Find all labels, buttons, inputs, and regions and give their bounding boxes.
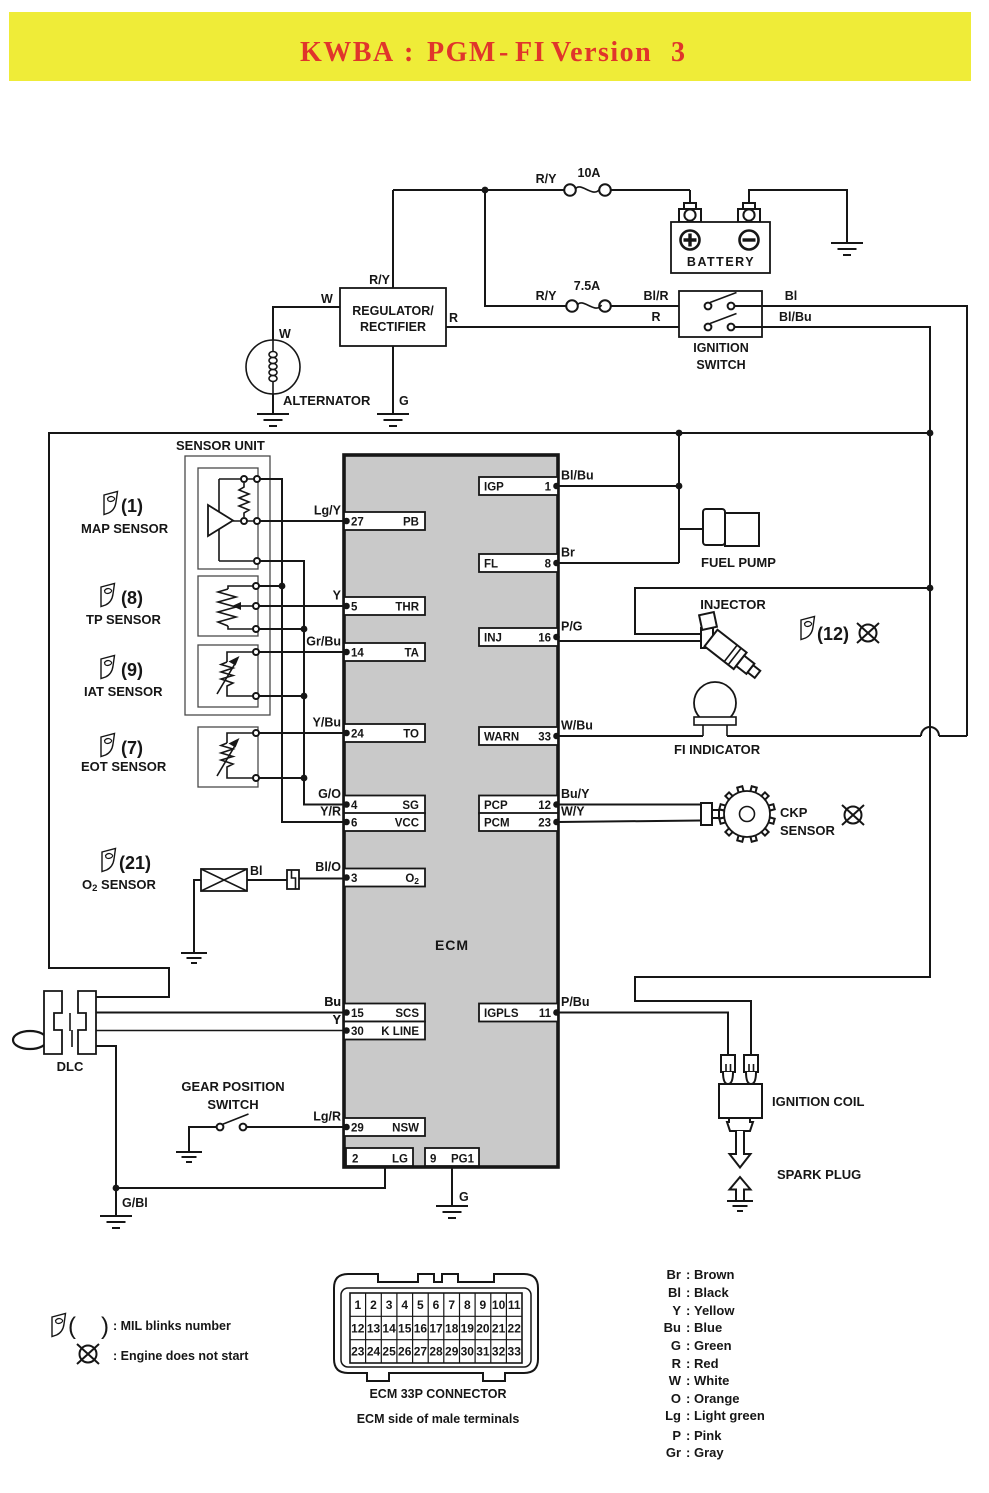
MAP sensor box	[198, 468, 258, 569]
svg-text:ECM: ECM	[435, 937, 469, 953]
wire O2 to ground	[194, 880, 201, 953]
svg-text:12: 12	[538, 800, 551, 812]
svg-text:G: G	[671, 1338, 681, 1353]
node pin 24 dot	[343, 730, 350, 737]
svg-text:IGP: IGP	[484, 482, 504, 494]
MIL icon (1)	[104, 492, 118, 515]
svg-text::: :	[686, 1391, 690, 1406]
svg-text:17: 17	[429, 1321, 443, 1335]
svg-text:15: 15	[398, 1321, 412, 1335]
wire Lg/R gear switch to pin 29	[247, 1126, 345, 1128]
svg-text:LG: LG	[392, 1154, 408, 1166]
pin 9 PG1 (bottom)	[425, 1148, 479, 1166]
node pin 3 dot	[343, 874, 350, 881]
svg-text:FI INDICATOR: FI INDICATOR	[674, 742, 761, 757]
svg-text:G: G	[399, 394, 409, 408]
svg-text:R/Y: R/Y	[536, 289, 558, 303]
svg-text:Black: Black	[694, 1285, 729, 1300]
node pin 1 dot	[553, 483, 560, 490]
MIL icon (7)	[101, 734, 115, 757]
svg-text:23: 23	[538, 818, 551, 830]
pin 23 PCM (right)	[479, 813, 558, 831]
svg-text::: :	[686, 1408, 690, 1423]
node pin 8 dot	[553, 560, 560, 567]
svg-text:28: 28	[429, 1345, 443, 1359]
svg-text:21: 21	[492, 1321, 506, 1335]
pin 33 WARN (right)	[479, 727, 558, 745]
svg-text:DLC: DLC	[57, 1059, 84, 1074]
svg-text:Lg: Lg	[665, 1408, 681, 1423]
svg-text:30: 30	[351, 1026, 364, 1038]
svg-text:R/Y: R/Y	[369, 273, 391, 287]
svg-text:1: 1	[354, 1298, 361, 1312]
svg-text:R: R	[672, 1356, 682, 1371]
svg-text:2: 2	[352, 1154, 358, 1166]
pin 14 TA (left)	[344, 643, 425, 661]
svg-text:W/Bu: W/Bu	[561, 719, 593, 733]
svg-text:24: 24	[367, 1345, 381, 1359]
wire bus A VCC	[260, 479, 344, 822]
svg-text:23: 23	[351, 1345, 365, 1359]
svg-text:W: W	[321, 292, 333, 306]
svg-text:Gray: Gray	[694, 1445, 724, 1460]
svg-text:PG1: PG1	[451, 1154, 475, 1166]
svg-text:R: R	[651, 310, 660, 324]
wire color legend	[664, 1267, 765, 1460]
svg-text:TP SENSOR: TP SENSOR	[86, 612, 162, 627]
svg-text:8: 8	[464, 1298, 471, 1312]
wire alternator to ground	[272, 394, 274, 414]
wire Bu/Y PCP pin to CKP	[558, 804, 701, 806]
svg-text:10A: 10A	[578, 166, 601, 180]
svg-text:G/Bl: G/Bl	[122, 1196, 148, 1210]
ground spark plug	[727, 1201, 753, 1211]
MAP sensor internals	[208, 476, 260, 564]
title banner	[9, 12, 971, 81]
svg-text:13: 13	[367, 1321, 381, 1335]
wire R regulator to switch	[446, 326, 679, 328]
svg-text:5: 5	[351, 602, 358, 614]
pin 12 PCP (right)	[479, 796, 558, 814]
wire DLC ground branch	[96, 1046, 116, 1216]
svg-text:14: 14	[382, 1321, 396, 1335]
svg-text::: :	[686, 1428, 690, 1443]
svg-text:R: R	[449, 311, 458, 325]
svg-text:16: 16	[538, 633, 551, 645]
node pin 16 dot	[553, 634, 560, 641]
svg-text:SENSOR UNIT: SENSOR UNIT	[176, 438, 265, 453]
wire fuel pump / IGP branch vertical	[679, 433, 703, 563]
svg-text:1: 1	[545, 482, 552, 494]
pin 5 THR (left)	[344, 597, 425, 615]
wire regulator G to ground	[392, 346, 394, 414]
wire Lg/Y MAP to pin 27	[260, 520, 344, 522]
wire Br FL pin to branch	[558, 562, 679, 564]
svg-text:Brown: Brown	[694, 1267, 735, 1282]
svg-text:G/O: G/O	[318, 787, 341, 801]
pin 11 IGPLS (right)	[479, 1004, 558, 1022]
node pin 6 dot	[343, 819, 350, 826]
no-start icon legend	[77, 1344, 99, 1364]
svg-text:(8): (8)	[121, 588, 143, 608]
pin 2 LG (bottom)	[346, 1148, 413, 1166]
svg-text:29: 29	[351, 1123, 364, 1135]
wire battery positive top rail	[393, 190, 690, 288]
ground PG1	[436, 1206, 468, 1218]
svg-text:Orange: Orange	[694, 1391, 740, 1406]
svg-text:THR: THR	[395, 602, 419, 614]
svg-text:32: 32	[492, 1345, 506, 1359]
ground gear switch	[176, 1152, 202, 1162]
svg-text:W: W	[279, 327, 291, 341]
svg-text:FUEL PUMP: FUEL PUMP	[701, 555, 776, 570]
svg-text:TA: TA	[405, 648, 419, 660]
node pin 27 dot	[343, 518, 350, 525]
svg-text:SG: SG	[402, 800, 419, 812]
node pin 23 dot	[553, 819, 560, 826]
svg-text:Bl: Bl	[668, 1285, 681, 1300]
op-amp ECM main box U1	[344, 455, 558, 1167]
wire Bl O2 to connector	[247, 879, 287, 881]
MIL icon (9)	[101, 656, 115, 679]
svg-text:Gr: Gr	[666, 1445, 681, 1460]
svg-text:11: 11	[508, 1298, 521, 1312]
svg-text::: :	[686, 1320, 690, 1335]
FI indicator L1	[674, 682, 761, 757]
fuse F2 7.5A	[566, 300, 578, 312]
pin 15 SCS (left)	[344, 1004, 425, 1022]
svg-text:Blue: Blue	[694, 1320, 722, 1335]
svg-text:IGNITION: IGNITION	[693, 341, 749, 355]
wire FI indicator to Bl rail with hop	[727, 727, 967, 736]
svg-text:W/Y: W/Y	[561, 805, 585, 819]
svg-text:(: (	[68, 1313, 76, 1340]
node pin 12 dot	[553, 801, 560, 808]
svg-text:K LINE: K LINE	[381, 1026, 419, 1038]
MIL icon legend	[52, 1314, 66, 1337]
CKP sensor B1	[701, 786, 836, 841]
svg-text:7: 7	[448, 1298, 455, 1312]
svg-text:IGNITION COIL: IGNITION COIL	[772, 1094, 865, 1109]
ground alternator	[257, 414, 289, 426]
svg-text:Y: Y	[333, 1013, 342, 1027]
svg-text:RECTIFIER: RECTIFIER	[360, 320, 426, 334]
svg-text::: :	[686, 1338, 690, 1353]
pin 24 TO (left)	[344, 724, 425, 742]
svg-text:Bl/O: Bl/O	[315, 860, 341, 874]
svg-text:Y/Bu: Y/Bu	[313, 716, 341, 730]
ignition switch SW1	[679, 291, 762, 372]
ground battery	[831, 243, 863, 255]
wire Gr/Bu IAT to pin 14	[259, 651, 344, 653]
wire fuse2 to ignition switch	[611, 305, 679, 307]
svg-text:White: White	[694, 1373, 729, 1388]
svg-text:GEAR POSITION: GEAR POSITION	[181, 1079, 284, 1094]
node junction bus A	[279, 583, 286, 590]
svg-text::: :	[686, 1267, 690, 1282]
svg-text:FL: FL	[484, 559, 498, 571]
pin 1 IGP (right)	[479, 477, 558, 495]
svg-text:ECM 33P CONNECTOR: ECM 33P CONNECTOR	[369, 1387, 506, 1401]
ground G/Bl	[100, 1216, 132, 1228]
node junction bus B	[301, 775, 308, 782]
svg-text:30: 30	[461, 1345, 475, 1359]
svg-text:4: 4	[401, 1298, 408, 1312]
svg-text:PCM: PCM	[484, 818, 510, 830]
svg-text:18: 18	[445, 1321, 459, 1335]
no-start icon CKP	[842, 805, 864, 825]
wire TP bottom to bus B	[259, 628, 304, 630]
svg-text:15: 15	[351, 1008, 364, 1020]
svg-text:Lg/Y: Lg/Y	[314, 504, 342, 518]
svg-text:(21): (21)	[119, 853, 151, 873]
svg-text:G: G	[459, 1190, 469, 1204]
svg-text:16: 16	[414, 1321, 428, 1335]
MIL icon (8)	[101, 584, 115, 607]
node pin 14 dot	[343, 649, 350, 656]
wire Y/Bu EOT to pin 24	[259, 732, 344, 734]
svg-text:Bu: Bu	[664, 1320, 681, 1335]
svg-text:: MIL blinks number: : MIL blinks number	[113, 1319, 231, 1333]
wire P/G INJ pin to injector	[558, 640, 701, 642]
svg-text:22: 22	[508, 1321, 522, 1335]
connector pin grid	[350, 1293, 522, 1363]
svg-text:(12): (12)	[817, 624, 849, 644]
pin 30 K LINE (left)	[344, 1022, 425, 1040]
svg-text:(1): (1)	[121, 496, 143, 516]
wire Bu DLC to pin 15	[96, 1012, 344, 1014]
node junction bus B	[301, 626, 308, 633]
fuel pump M1	[701, 509, 776, 570]
svg-text:Br: Br	[667, 1267, 681, 1282]
svg-text:Red: Red	[694, 1356, 719, 1371]
svg-text:INJ: INJ	[484, 633, 502, 645]
svg-text:9: 9	[480, 1298, 487, 1312]
svg-text:Bl: Bl	[785, 289, 798, 303]
svg-text:IGPLS: IGPLS	[484, 1008, 519, 1020]
ECM 33P connector J1 outline	[334, 1274, 538, 1381]
wire IAT bottom to bus B	[259, 695, 304, 697]
svg-text:2: 2	[370, 1298, 377, 1312]
svg-text:27: 27	[414, 1345, 428, 1359]
svg-text:26: 26	[398, 1345, 412, 1359]
node pin 33 dot	[553, 733, 560, 740]
svg-text:(7): (7)	[121, 738, 143, 758]
svg-text:Br: Br	[561, 546, 575, 560]
EOT sensor internals	[217, 730, 259, 781]
svg-text:O: O	[671, 1391, 681, 1406]
ground regulator	[377, 414, 409, 426]
svg-text:Bl/Bu: Bl/Bu	[779, 310, 812, 324]
wire W regulator to alternator	[273, 307, 340, 340]
svg-text:CKP: CKP	[780, 805, 808, 820]
svg-text:SWITCH: SWITCH	[696, 358, 745, 372]
svg-text:9: 9	[430, 1154, 436, 1166]
svg-text:VCC: VCC	[395, 818, 419, 830]
fuse F1 10A	[564, 184, 576, 196]
node junction bus B	[301, 693, 308, 700]
wire Y TP wiper to pin 5	[259, 605, 344, 607]
svg-text:P/G: P/G	[561, 620, 583, 634]
svg-text:Green: Green	[694, 1338, 732, 1353]
wire Bl/O connector to pin 3	[299, 878, 344, 880]
svg-text:33: 33	[538, 732, 551, 744]
svg-text:8: 8	[545, 559, 552, 571]
svg-text:Y: Y	[333, 589, 342, 603]
svg-text:Y: Y	[672, 1303, 681, 1318]
wire battery terminals	[690, 190, 847, 243]
node pin 11 dot	[553, 1009, 560, 1016]
connector inline O2	[287, 870, 299, 889]
svg-text:SCS: SCS	[395, 1008, 419, 1020]
wire Bl from switch to right rail	[735, 306, 968, 736]
IAT sensor internals	[217, 649, 259, 699]
svg-text:27: 27	[351, 517, 364, 529]
svg-text:W: W	[669, 1373, 682, 1388]
svg-text:14: 14	[351, 648, 364, 660]
wire gear switch to ground	[189, 1127, 217, 1152]
svg-text::: :	[686, 1285, 690, 1300]
node pin 30 dot	[343, 1027, 350, 1034]
svg-text:29: 29	[445, 1345, 459, 1359]
svg-text:NSW: NSW	[392, 1123, 419, 1135]
node pin 29 dot	[343, 1124, 350, 1131]
sensor unit outer box	[185, 456, 270, 715]
node junction wrap/right bus	[927, 430, 934, 437]
wire Bl/Bu IGP pin to branch	[558, 485, 679, 487]
svg-text:20: 20	[476, 1321, 490, 1335]
svg-text:31: 31	[476, 1345, 490, 1359]
svg-text:TO: TO	[403, 729, 419, 741]
MIL icon (12)	[801, 617, 815, 640]
regulator rectifier U2	[340, 288, 446, 346]
wire W/Y PCM pin to CKP	[558, 821, 701, 823]
node junction G/Bl	[113, 1185, 120, 1192]
svg-text:EOT SENSOR: EOT SENSOR	[81, 759, 167, 774]
svg-text:19: 19	[461, 1321, 475, 1335]
TP sensor internals	[218, 583, 259, 632]
svg-text:6: 6	[351, 818, 357, 830]
svg-text:6: 6	[433, 1298, 440, 1312]
svg-text:PCP: PCP	[484, 800, 508, 812]
pin 27 PB (left)	[344, 512, 425, 530]
DLC connector	[13, 991, 96, 1074]
svg-text:ECM side of male terminals: ECM side of male terminals	[357, 1412, 520, 1426]
svg-text:WARN: WARN	[484, 732, 519, 744]
IAT sensor box	[198, 645, 258, 707]
wire 7.5A branch vertical	[485, 190, 566, 306]
node pin 5 dot	[343, 603, 350, 610]
spark plug arrows	[730, 1131, 751, 1168]
node junction IGP branch	[676, 483, 683, 490]
svg-text:3: 3	[386, 1298, 393, 1312]
svg-text:33: 33	[508, 1345, 522, 1359]
svg-text:REGULATOR/: REGULATOR/	[352, 304, 434, 318]
wire LG pin to G/Bl junction	[116, 1166, 385, 1188]
node junction 10A rail to 7.5A branch	[482, 187, 489, 194]
svg-text:Bu/Y: Bu/Y	[561, 787, 590, 801]
battery BATTERY	[671, 203, 770, 273]
pin 16 INJ (right)	[479, 628, 558, 646]
svg-text:Y/R: Y/R	[320, 805, 341, 819]
svg-text:(9): (9)	[121, 660, 143, 680]
svg-text:Bl/Bu: Bl/Bu	[561, 469, 594, 483]
alternator G1	[246, 340, 371, 408]
svg-text:: Engine does not start: : Engine does not start	[113, 1349, 249, 1363]
wire bus B SG	[260, 561, 344, 805]
gear position switch SW2	[217, 1114, 249, 1130]
svg-text:Bl: Bl	[250, 864, 263, 878]
injector INJ1	[699, 612, 764, 682]
svg-text:4: 4	[351, 800, 358, 812]
node junction injector feed	[927, 585, 934, 592]
svg-text:7.5A: 7.5A	[574, 279, 600, 293]
svg-text:ALTERNATOR: ALTERNATOR	[283, 393, 371, 408]
svg-text:3: 3	[351, 873, 357, 885]
svg-text::: :	[686, 1303, 690, 1318]
wire Bl/Bu wrap bus top rail	[49, 433, 930, 997]
pin 29 NSW (left)	[344, 1118, 425, 1136]
svg-text:SPARK PLUG: SPARK PLUG	[777, 1167, 861, 1182]
svg-text::: :	[686, 1373, 690, 1388]
pin 6 VCC (left)	[344, 813, 425, 831]
svg-text:Bl/R: Bl/R	[644, 289, 669, 303]
pin 8 FL (right)	[479, 554, 558, 572]
no-start icon injector	[857, 623, 879, 643]
wire right Bl/Bu bus vertical	[635, 433, 930, 1056]
node pin 15 dot	[343, 1009, 350, 1016]
ground O2 sensor	[181, 953, 207, 963]
svg-text:Light green: Light green	[694, 1408, 765, 1423]
wire injector feed from bus	[635, 588, 930, 634]
wire Y DLC to pin 30	[96, 1030, 344, 1032]
EOT sensor box	[198, 727, 258, 787]
pin 3 O2 (left)	[344, 869, 425, 887]
svg-text:5: 5	[417, 1298, 424, 1312]
svg-text:Bu: Bu	[324, 995, 341, 1009]
svg-text:24: 24	[351, 729, 364, 741]
svg-text:MAP SENSOR: MAP SENSOR	[81, 521, 169, 536]
ignition coil T1	[719, 1055, 865, 1131]
wire W/Bu WARN pin to FI indicator	[558, 735, 703, 737]
svg-text:R/Y: R/Y	[536, 172, 558, 186]
svg-text:KWBA:PGM-FIVersion3: KWBA:PGM-FIVersion3	[300, 37, 687, 68]
MIL icon (21)	[102, 849, 116, 872]
node junction fuel pump branch	[676, 430, 683, 437]
pin 4 SG (left)	[344, 796, 425, 814]
svg-text:11: 11	[539, 1008, 552, 1020]
svg-text:INJECTOR: INJECTOR	[700, 597, 766, 612]
svg-text:P/Bu: P/Bu	[561, 995, 589, 1009]
svg-text:Lg/R: Lg/R	[313, 1110, 341, 1124]
TP sensor box	[198, 576, 258, 636]
svg-text:IAT SENSOR: IAT SENSOR	[84, 684, 163, 699]
O2 sensor element	[201, 869, 247, 891]
svg-text:SWITCH: SWITCH	[207, 1097, 258, 1112]
wire EOT bottom to bus B	[259, 777, 304, 779]
svg-text:Gr/Bu: Gr/Bu	[306, 635, 341, 649]
svg-text:BATTERY: BATTERY	[687, 255, 755, 269]
wire P/Bu IGPLS pin to coil	[558, 1013, 728, 1057]
connector pin numbers 1-33	[351, 1298, 521, 1359]
svg-text:P: P	[672, 1428, 681, 1443]
wire TP top to bus A	[259, 585, 282, 587]
svg-text:SENSOR: SENSOR	[780, 823, 836, 838]
svg-text::: :	[686, 1356, 690, 1371]
svg-text:25: 25	[382, 1345, 396, 1359]
wire PG1 to ground	[451, 1166, 453, 1206]
svg-text:Pink: Pink	[694, 1428, 722, 1443]
